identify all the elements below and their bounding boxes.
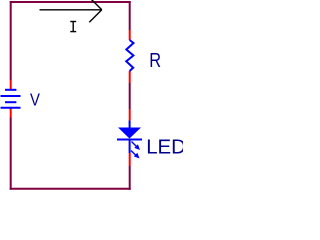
svg-text:R: R: [149, 48, 161, 71]
svg-text:V: V: [30, 90, 40, 109]
svg-text:LED: LED: [146, 137, 183, 159]
